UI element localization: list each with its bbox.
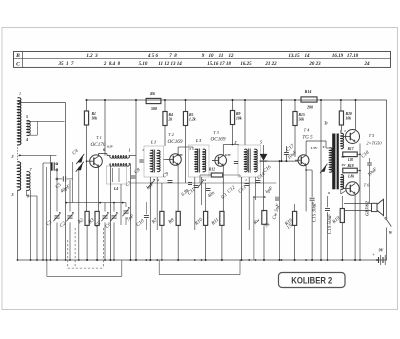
svg-text:Tr: Tr	[324, 122, 328, 126]
svg-text:35 1 7: 35 1 7	[58, 62, 75, 67]
svg-text:R12: R12	[209, 168, 215, 172]
svg-text:5: 5	[26, 114, 28, 119]
svg-text:R5: R5	[189, 113, 194, 117]
svg-text:2k: 2k	[168, 118, 173, 122]
svg-text:1.8k: 1.8k	[348, 175, 354, 179]
svg-text:9: 9	[323, 145, 325, 149]
svg-text:30k: 30k	[91, 117, 98, 121]
svg-text:1: 1	[19, 91, 21, 96]
svg-text:L 3: L 3	[195, 139, 201, 143]
svg-text:C19 50uF: C19 50uF	[328, 213, 333, 234]
svg-text:T 1: T 1	[96, 135, 102, 140]
svg-text:21 22: 21 22	[264, 62, 277, 67]
svg-text:T 3: T 3	[213, 130, 219, 135]
svg-text:R18: R18	[348, 164, 354, 168]
svg-text:L 1: L 1	[150, 141, 156, 145]
svg-text:R15: R15	[299, 113, 305, 117]
svg-text:13.15: 13.15	[288, 54, 300, 59]
svg-text:10k: 10k	[236, 117, 242, 121]
svg-text:OC170: OC170	[91, 142, 106, 148]
svg-text:10k: 10k	[346, 117, 352, 121]
svg-text:4: 4	[156, 178, 159, 182]
svg-text:2: 2	[234, 141, 237, 145]
svg-text:9V: 9V	[379, 248, 384, 253]
svg-text:C15 30uF: C15 30uF	[313, 201, 318, 222]
svg-text:11 12 13 14: 11 12 13 14	[158, 62, 182, 67]
svg-text:10: 10	[209, 54, 215, 59]
svg-text:4: 4	[203, 178, 206, 182]
svg-text:T 6: T 6	[364, 183, 370, 188]
svg-text:24: 24	[364, 62, 371, 67]
svg-text:500: 500	[151, 106, 157, 111]
svg-text:3: 3	[11, 192, 14, 197]
svg-text:R17: R17	[348, 147, 354, 151]
svg-text:R1: R1	[92, 112, 97, 116]
svg-text:OC169: OC169	[211, 137, 226, 143]
svg-text:1.2k: 1.2k	[189, 118, 196, 122]
svg-text:4: 4	[25, 137, 28, 142]
svg-text:6.5V: 6.5V	[225, 153, 232, 157]
svg-text:L4: L4	[113, 187, 118, 191]
svg-text:C: C	[16, 61, 20, 67]
svg-text:TG 5: TG 5	[302, 136, 313, 141]
svg-text:B: B	[15, 53, 20, 59]
svg-text:1: 1	[344, 129, 346, 133]
svg-text:5: 5	[260, 141, 262, 145]
svg-text:15.16 17 18: 15.16 17 18	[207, 62, 231, 67]
svg-text:R4: R4	[169, 113, 174, 117]
svg-text:0.2V: 0.2V	[107, 145, 114, 149]
svg-text:1.5V: 1.5V	[311, 146, 318, 150]
svg-text:T 4: T 4	[304, 128, 310, 133]
svg-text:20 23: 20 23	[308, 62, 321, 67]
svg-text:T 2: T 2	[168, 132, 174, 137]
svg-text:6: 6	[328, 191, 330, 195]
svg-text:16.19: 16.19	[332, 54, 344, 59]
svg-text:6.5V: 6.5V	[177, 153, 184, 157]
svg-text:R9: R9	[236, 112, 241, 116]
svg-text:2: 2	[188, 147, 191, 151]
svg-text:5.10: 5.10	[139, 62, 148, 67]
svg-text:2×TG50: 2×TG50	[366, 140, 382, 145]
svg-text:1.2 3: 1.2 3	[86, 54, 98, 59]
svg-text:120: 120	[348, 158, 354, 162]
svg-text:11: 11	[219, 54, 224, 59]
svg-text:R14: R14	[305, 89, 312, 94]
svg-text:14: 14	[305, 54, 311, 59]
svg-text:R6: R6	[150, 91, 155, 96]
svg-text:7 8: 7 8	[169, 54, 177, 59]
svg-text:16.25: 16.25	[240, 62, 252, 67]
svg-text:12: 12	[229, 54, 235, 59]
svg-text:2: 2	[11, 154, 14, 159]
svg-text:R20: R20	[346, 112, 352, 116]
svg-text:KOLIBER 2: KOLIBER 2	[291, 275, 332, 286]
svg-text:200: 200	[306, 105, 313, 110]
svg-text:GD7/8/2: GD7/8/2	[365, 201, 370, 216]
svg-text:2 8.4 8: 2 8.4 8	[103, 62, 121, 67]
svg-text:1: 1	[129, 149, 131, 153]
svg-text:OC169: OC169	[168, 139, 183, 145]
svg-text:56k: 56k	[299, 118, 305, 122]
svg-text:4 5 6: 4 5 6	[147, 54, 159, 59]
svg-text:T 5: T 5	[369, 133, 375, 138]
svg-text:17.18: 17.18	[347, 54, 359, 59]
